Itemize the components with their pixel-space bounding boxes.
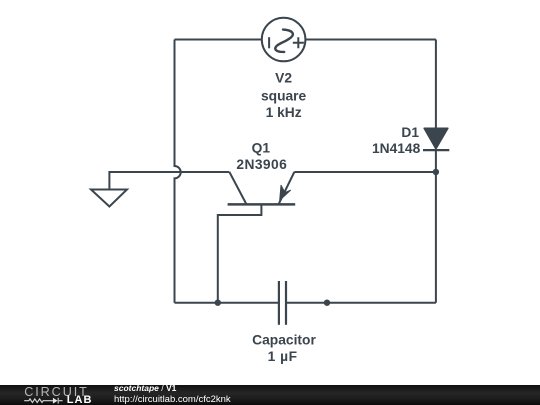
- svg-text:D1: D1: [401, 125, 419, 140]
- voltage source V2: [262, 18, 306, 62]
- wire left vertical with hop over ground wire: [175, 40, 181, 303]
- wire right vertical lower (diode cathode to bottom rail): [435, 150, 437, 303]
- svg-text:2N3906: 2N3906: [236, 157, 287, 172]
- svg-text:V2: V2: [275, 71, 292, 86]
- svg-text:LAB: LAB: [67, 394, 93, 405]
- capacitor C1 plates: [279, 281, 286, 325]
- emitter diagonal: [279, 172, 295, 204]
- junction node emitter wire / right vertical: [433, 169, 439, 175]
- collector diagonal: [229, 172, 246, 204]
- base bar: [228, 203, 296, 206]
- wire bottom rail left segment: [175, 302, 279, 304]
- svg-text:square: square: [261, 89, 307, 104]
- wire top rail left segment: [175, 39, 263, 41]
- svg-text:Capacitor: Capacitor: [252, 333, 316, 348]
- footer title text: [114, 384, 176, 392]
- emitter arrowhead: [280, 185, 291, 200]
- wire top rail right segment: [306, 39, 436, 41]
- junction node at base lead / bottom rail: [215, 300, 221, 306]
- wire transistor emitter to right vertical: [294, 171, 436, 173]
- svg-text:1 µF: 1 µF: [268, 349, 298, 364]
- diode D1: [423, 128, 449, 150]
- wire ground net horizontal to transistor collector: [109, 172, 229, 190]
- ground: [91, 190, 127, 207]
- footer url text: [114, 394, 231, 405]
- wire right vertical upper (to diode anode): [435, 40, 437, 130]
- wire base lead down-left to bottom rail: [218, 204, 262, 302]
- wire bottom rail right segment: [286, 302, 436, 304]
- footer bar: [0, 385, 540, 405]
- svg-text:1 kHz: 1 kHz: [266, 105, 302, 120]
- svg-text:1N4148: 1N4148: [372, 141, 421, 156]
- junction node right of capacitor: [324, 300, 330, 306]
- transistor Q1: [228, 172, 296, 204]
- CircuitLab logo: [23, 374, 98, 405]
- svg-text:Q1: Q1: [252, 141, 271, 156]
